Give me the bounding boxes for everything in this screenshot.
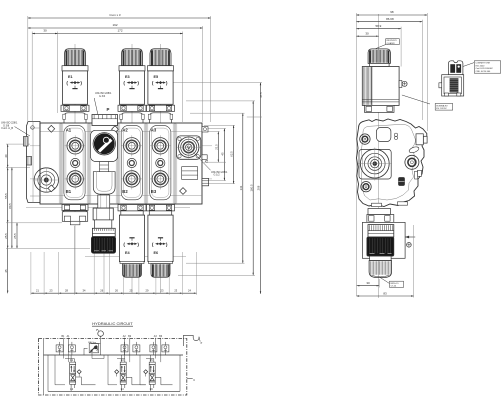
pilot port mid section 2 — [127, 158, 136, 167]
side body lower neck — [367, 209, 394, 223]
svg-text:98: 98 — [390, 10, 394, 14]
extension lines left — [6, 144, 90, 248]
svg-text:E5: E5 — [154, 75, 159, 79]
outlet cover flange — [176, 136, 200, 159]
side solenoid mounting band — [365, 105, 395, 112]
callout stem thread — [380, 277, 404, 287]
dimension side 98 — [356, 10, 427, 16]
svg-text:Cum x 3: Cum x 3 — [109, 13, 121, 17]
side view centerline — [377, 14, 379, 298]
side solenoid knurled cap — [368, 49, 390, 64]
dimension side 58.9 — [356, 24, 401, 30]
svg-text:B2: B2 — [122, 189, 128, 194]
centerline port row B — [30, 178, 212, 180]
svg-text:30: 30 — [366, 281, 370, 285]
svg-text:A1: A1 — [66, 128, 72, 133]
svg-text:80.5: 80.5 — [8, 203, 12, 209]
wire bus branches — [55, 355, 154, 385]
callout UNI-ISO G 3/8 left — [1, 122, 30, 137]
solenoid E5 — [147, 49, 175, 123]
dimension right 62.5 — [230, 125, 235, 183]
svg-text:208: 208 — [257, 185, 261, 190]
svg-text:B1: B1 — [66, 189, 72, 194]
dimension right 21.5 — [215, 132, 220, 163]
svg-text:E6: E6 — [154, 251, 159, 255]
dimension side 30 bottom — [357, 281, 380, 286]
svg-text:M22x1.5: M22x1.5 — [391, 283, 400, 285]
construction line lower — [26, 206, 190, 208]
dimension left 87 — [8, 168, 13, 249]
side black knob — [367, 237, 394, 256]
side threaded stem — [369, 261, 392, 278]
connector plug top — [449, 61, 463, 75]
svg-text:ISO 4400: ISO 4400 — [476, 65, 486, 67]
svg-text:G 3/4: G 3/4 — [99, 95, 106, 98]
svg-text:CND. ECDL960: CND. ECDL960 — [476, 71, 492, 73]
dimension side 30 — [356, 31, 379, 37]
circuit return riser left — [47, 355, 49, 391]
tie rod diamond bottom left — [48, 185, 55, 192]
svg-text:58.9: 58.9 — [375, 24, 381, 28]
circuit return bus — [48, 390, 180, 392]
dimension right 131 — [239, 113, 244, 263]
side body detail circles — [394, 133, 397, 139]
extension lines side top — [357, 13, 428, 296]
svg-text:Funz. A_B: Funz. A_B — [2, 127, 14, 130]
port B1 — [65, 168, 86, 193]
side body logo oval — [408, 146, 419, 154]
svg-text:83: 83 — [383, 291, 387, 295]
svg-text:21.5: 21.5 — [215, 144, 219, 150]
extension lines bottom — [31, 226, 197, 295]
svg-text:B3: B3 — [151, 189, 157, 194]
terminal screw — [399, 81, 407, 88]
wire staircase section 1 — [76, 377, 96, 385]
side body right edge steps — [415, 170, 422, 179]
dimension right 160.5 — [249, 101, 254, 276]
solenoid E6 — [147, 205, 175, 278]
svg-text:55.5: 55.5 — [4, 193, 8, 199]
svg-text:25.5: 25.5 — [13, 233, 17, 239]
svg-text:45: 45 — [4, 269, 8, 273]
solenoid E3 — [118, 49, 146, 123]
left end plate — [27, 122, 41, 203]
circuit return riser right — [179, 355, 181, 391]
pilot port mid section 1 — [71, 158, 80, 167]
solenoid E1 — [61, 49, 89, 123]
tie rod diamond bottom middle — [180, 188, 187, 195]
tie rod diamond top left — [48, 125, 55, 132]
side body bottom tabs — [372, 202, 408, 207]
svg-text:25.5: 25.5 — [4, 233, 8, 239]
side solenoid coil body — [362, 67, 399, 106]
svg-text:G 1/2: G 1/2 — [214, 174, 221, 177]
svg-text:P: P — [107, 107, 110, 112]
svg-text:Ch.24: Ch.24 — [391, 286, 397, 288]
pilot port mid section 3 — [156, 158, 165, 167]
svg-text:40: 40 — [4, 154, 8, 158]
outlet top corner bolt — [202, 127, 208, 133]
check valves section 3 — [150, 342, 169, 355]
side body bolt bottom — [361, 182, 371, 192]
port A1 — [65, 128, 86, 157]
wire relief bypass — [92, 353, 104, 359]
circuit pressure bus — [44, 354, 184, 356]
callout knob reference — [375, 39, 399, 49]
relief valve hex nut — [93, 208, 113, 220]
inlet valve stem — [100, 162, 109, 172]
svg-text:62.5: 62.5 — [230, 151, 234, 157]
outlet lower hex boss — [202, 178, 209, 185]
svg-text:BOBINA EV.: BOBINA EV. — [436, 104, 448, 107]
port A3 — [150, 128, 171, 157]
dimension 30 — [32, 29, 58, 35]
side solenoid cap ring — [369, 63, 389, 66]
circuit port A3 B3 — [154, 335, 163, 345]
spool valve section 3 E5 E6 — [144, 345, 161, 391]
relief valve graduated ring — [92, 228, 115, 236]
outlet cover rib stack — [182, 167, 198, 180]
circuit port B1 A1 — [62, 335, 71, 345]
section 1 relief cartridge bottom — [62, 205, 88, 225]
connector body — [439, 75, 464, 96]
circuit inner left line — [43, 339, 45, 395]
svg-text:45: 45 — [221, 152, 225, 156]
side knob collar — [370, 256, 392, 261]
side body inner contour — [362, 124, 416, 200]
carry-over port path — [183, 335, 202, 346]
construction line bottom — [85, 255, 186, 257]
svg-text:HYDRAULIC CIRCUIT: HYDRAULIC CIRCUIT — [92, 321, 133, 326]
svg-text:47.5: 47.5 — [259, 92, 263, 98]
svg-text:MAX bar: MAX bar — [88, 341, 96, 344]
side graduated ring — [368, 225, 394, 237]
block interior shoulder lines — [40, 132, 202, 196]
svg-text:QUADRI: QUADRI — [387, 42, 396, 45]
relief valve black knob — [91, 237, 115, 254]
dimension side 86.68 — [356, 17, 422, 23]
circuit boundary box — [39, 339, 187, 395]
main relief valve symbol — [84, 341, 100, 355]
side body bolt top — [360, 134, 370, 144]
port B2 — [121, 168, 142, 193]
dimension 172 — [58, 29, 183, 35]
check valves section 2 — [121, 342, 140, 355]
svg-text:C: C — [205, 159, 208, 164]
inlet port P boss — [92, 107, 118, 125]
svg-text:30: 30 — [365, 31, 369, 35]
spool valve section 2 E3 E4 — [115, 345, 130, 391]
section 3 face slab — [150, 126, 171, 200]
wire staircase section 3 — [155, 377, 172, 385]
dimension 192 — [28, 23, 203, 29]
side body port boss plate — [359, 149, 391, 179]
svg-text:A2: A2 — [122, 128, 128, 133]
svg-text:172: 172 — [117, 29, 122, 33]
port C tab — [202, 155, 207, 160]
svg-text:C: C — [193, 378, 195, 382]
relief valve adjustment stem — [98, 195, 110, 208]
circuit port A2 B2 — [123, 335, 132, 345]
valve block main body — [40, 123, 202, 204]
circuit port C — [187, 378, 196, 382]
dimension bottom chain — [31, 289, 197, 294]
centerline section 3 — [160, 44, 162, 293]
dimension right 45 — [221, 129, 226, 181]
dimension left vertical chain — [4, 144, 9, 293]
inlet relief valve cap — [91, 130, 118, 161]
centerline section 1 — [74, 44, 76, 293]
valve body side view silhouette — [357, 119, 427, 207]
callout UNI-ISO G 3/4 — [94, 92, 112, 114]
extension lines top — [28, 16, 211, 122]
left boss lower — [27, 157, 32, 166]
section 1 face slab — [64, 126, 85, 200]
svg-text:E1: E1 — [68, 75, 73, 79]
left boss upper (knurled) — [24, 137, 29, 147]
callout UNI-ISO G 1/2 — [194, 153, 229, 177]
side knob frame bracket — [362, 222, 415, 258]
check valves section 1 — [56, 342, 75, 355]
centerline inlet section — [103, 126, 105, 293]
circuit gauge port P — [96, 329, 103, 344]
section boundary lines — [59, 123, 177, 204]
hydraulic circuit title — [92, 321, 133, 326]
port B3 — [150, 168, 171, 193]
side body slot recess — [377, 128, 391, 142]
port A2 — [121, 128, 142, 157]
dimension overall top (Cum x 3) — [28, 13, 211, 19]
side body big port circle — [358, 148, 392, 181]
svg-text:160.5: 160.5 — [249, 184, 253, 191]
tie rod diamond top middle — [112, 126, 119, 133]
extension lines right — [170, 83, 262, 276]
wire P to bus — [99, 344, 101, 355]
dimension left 25.5 — [13, 223, 18, 249]
side body right boss cylinder — [416, 134, 427, 145]
svg-text:E3: E3 — [125, 75, 130, 79]
wire staircase section 2 — [126, 377, 145, 385]
svg-text:30: 30 — [43, 29, 47, 33]
dimension side 83 — [357, 291, 414, 296]
svg-text:131: 131 — [239, 185, 243, 190]
dimension right 208 — [257, 83, 263, 294]
centerline port row A — [30, 145, 212, 147]
side body latch dark — [399, 178, 405, 186]
callout EV 24VDC — [402, 95, 453, 110]
svg-text:EV. 24VDC: EV. 24VDC — [436, 108, 447, 110]
side body bolt right — [405, 155, 419, 169]
relief valve mid collar — [95, 220, 112, 228]
svg-text:CONNETTORE: CONNETTORE — [476, 63, 491, 65]
svg-text:86.68: 86.68 — [386, 17, 394, 21]
section 2 face slab — [121, 126, 142, 200]
svg-text:Cod. ECDC0966/C: Cod. ECDC0966/C — [476, 68, 494, 70]
solenoid E4 — [118, 205, 146, 278]
svg-text:A3: A3 — [151, 128, 157, 133]
inlet section lower boss — [93, 172, 115, 200]
callout connector label — [463, 61, 501, 73]
left plate round boss — [34, 168, 59, 193]
centerline section 2 — [131, 44, 133, 293]
spool valve section 1 E1 E2 — [64, 345, 82, 391]
outlet cover port circle — [177, 136, 201, 159]
extension lines side bottom — [379, 225, 413, 298]
svg-text:192: 192 — [112, 23, 117, 27]
